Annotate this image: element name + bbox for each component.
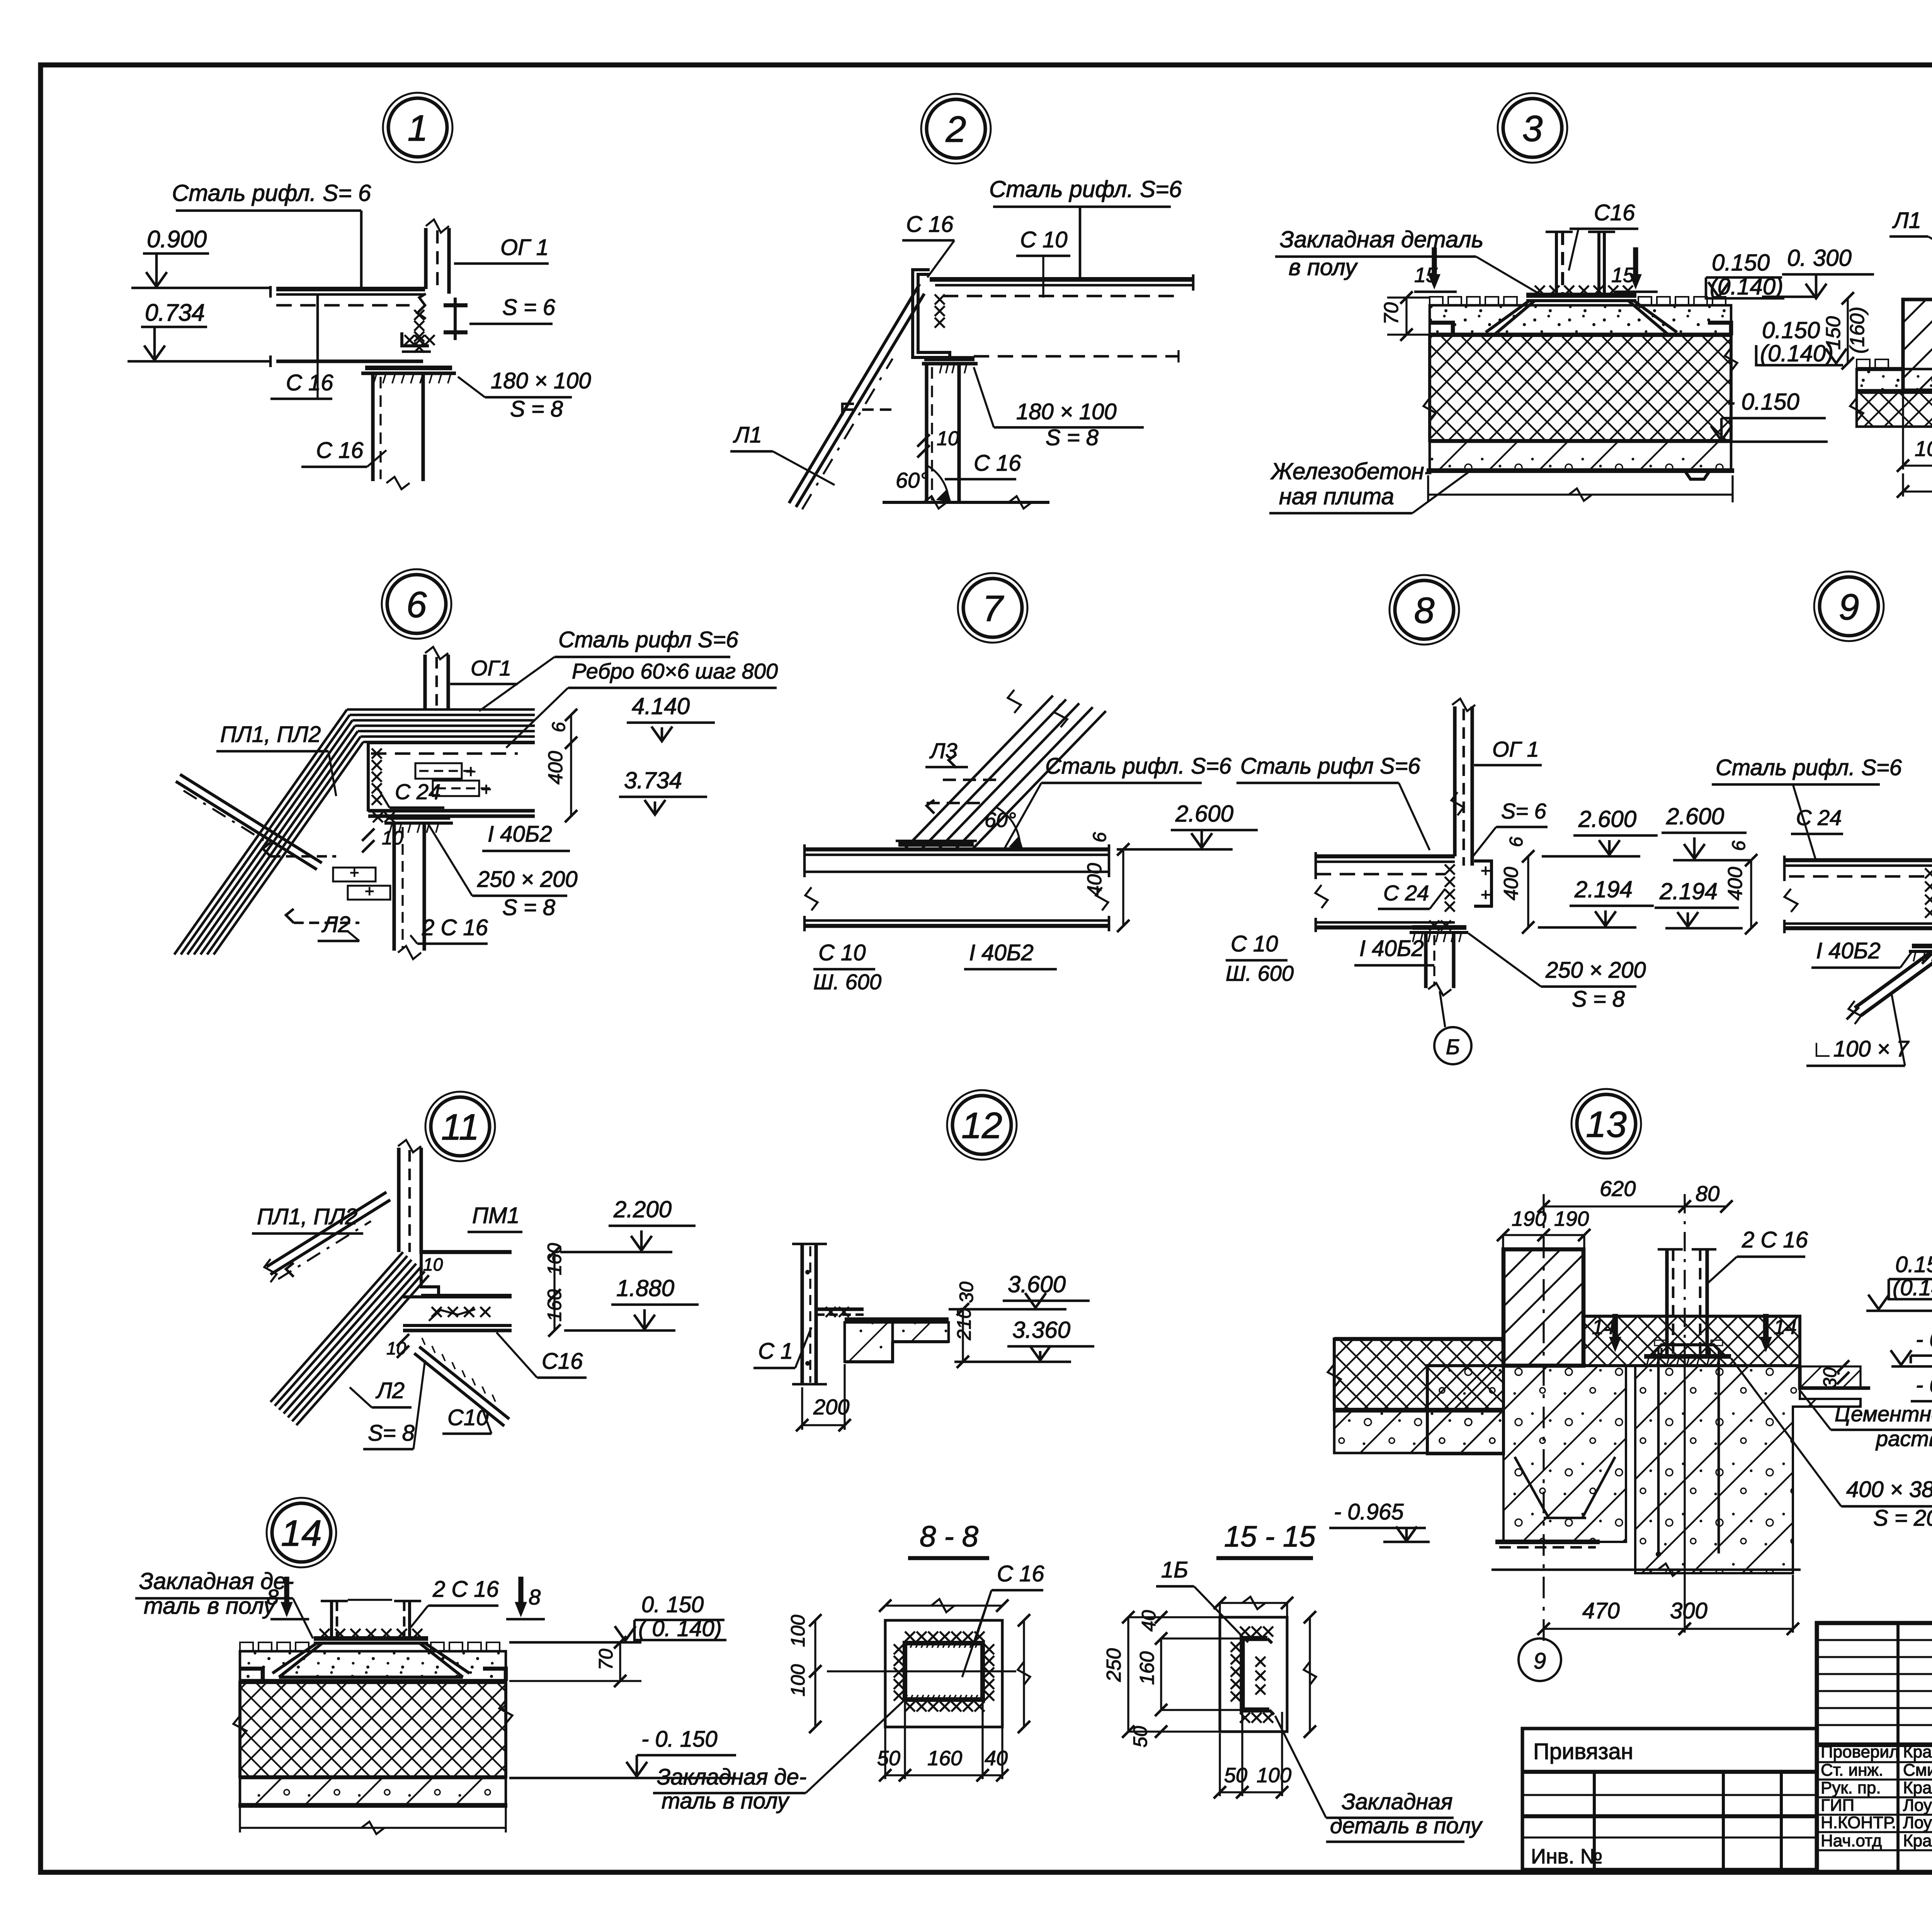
svg-text:11: 11 bbox=[441, 1107, 480, 1148]
svg-text:Краснова: Краснова bbox=[1903, 1742, 1932, 1761]
detail 4 concrete pier bbox=[1903, 299, 1932, 391]
detail 3 weld crosses on plate bbox=[1535, 286, 1545, 296]
svg-text:Ш. 600: Ш. 600 bbox=[813, 970, 881, 994]
svg-text:ОГ 1: ОГ 1 bbox=[500, 235, 549, 260]
svg-text:6: 6 bbox=[406, 584, 427, 625]
section 15-15 weld crosses bbox=[1240, 1627, 1250, 1637]
svg-text:С 16: С 16 bbox=[906, 212, 954, 237]
title block left row lines lower bbox=[1817, 1761, 1932, 1763]
svg-text:Сталь рифл. S=6: Сталь рифл. S=6 bbox=[1716, 755, 1902, 780]
svg-text:Закладная деталь: Закладная деталь bbox=[1280, 226, 1483, 252]
svg-text:400 × 380: 400 × 380 bbox=[1846, 1477, 1932, 1502]
svg-text:С16: С16 bbox=[542, 1349, 583, 1374]
detail 7 stringer Л3 bbox=[904, 696, 1053, 849]
detail 3 sand notch left bbox=[1430, 323, 1453, 335]
svg-text:250: 250 bbox=[1103, 1648, 1125, 1682]
svg-text:Л1: Л1 bbox=[733, 422, 762, 447]
svg-text:0.900: 0.900 bbox=[147, 226, 207, 253]
section 8-8 hole hatch bbox=[905, 1643, 907, 1648]
svg-text:S = 8: S = 8 bbox=[510, 396, 563, 422]
svg-text:100: 100 bbox=[787, 1664, 809, 1696]
svg-text:С10: С10 bbox=[447, 1405, 488, 1430]
svg-text:S = 6: S = 6 bbox=[502, 295, 556, 320]
detail 14 concrete layer bbox=[240, 1778, 506, 1804]
detail 13 floor left of column bbox=[1334, 1339, 1503, 1409]
svg-text:8: 8 bbox=[529, 1585, 541, 1609]
svg-text:Ребро 60×6 шаг 800: Ребро 60×6 шаг 800 bbox=[572, 659, 778, 683]
svg-text:400: 400 bbox=[1500, 867, 1522, 900]
svg-text:ГИП: ГИП bbox=[1821, 1796, 1854, 1815]
detail 2 baseline bbox=[883, 501, 1049, 504]
detail 3 concrete layer bbox=[1430, 442, 1731, 470]
title block left column lines bbox=[1896, 1623, 1900, 1872]
svg-text:2: 2 bbox=[946, 109, 966, 150]
svg-text:13: 13 bbox=[1586, 1104, 1627, 1145]
detail 1 channel C16 web bbox=[316, 294, 319, 361]
detail 13 weld ticks under plate bbox=[1647, 1356, 1649, 1365]
detail 13 concrete layer left bbox=[1334, 1411, 1503, 1453]
svg-text:Проверил: Проверил bbox=[1821, 1742, 1899, 1761]
detail 8 column below bbox=[1424, 932, 1427, 988]
detail 14 pavers bbox=[240, 1642, 253, 1651]
detail 9 beam bbox=[1784, 858, 1932, 863]
detail 14 anchor legs bbox=[272, 1643, 317, 1673]
svg-text:300: 300 bbox=[1670, 1598, 1708, 1623]
svg-text:8: 8 bbox=[1414, 590, 1435, 631]
detail 13 foundation left block bbox=[1427, 1366, 1503, 1454]
svg-text:ПЛ1, ПЛ2: ПЛ1, ПЛ2 bbox=[220, 722, 321, 747]
section 15-15 top dim line bbox=[1220, 1602, 1287, 1604]
svg-text:Сталь рифл. S=6: Сталь рифл. S=6 bbox=[1045, 754, 1232, 779]
svg-text:8: 8 bbox=[267, 1585, 279, 1609]
svg-text:С 16: С 16 bbox=[316, 438, 364, 463]
detail 14 embed plate bbox=[314, 1636, 428, 1641]
detail 13 plate bolts bbox=[1657, 1348, 1659, 1356]
detail 13 anchor bolts into foundation bbox=[1657, 1356, 1660, 1553]
svg-text:Сталь рифл S=6: Сталь рифл S=6 bbox=[558, 627, 739, 652]
svg-text:Л3: Л3 bbox=[929, 738, 957, 763]
svg-text:9: 9 bbox=[1839, 587, 1859, 628]
svg-text:С 16: С 16 bbox=[286, 370, 333, 395]
detail 4 pavers bbox=[1857, 359, 1870, 368]
svg-text:- 0. 150: - 0. 150 bbox=[641, 1727, 718, 1752]
svg-text:2.194: 2.194 bbox=[1574, 876, 1633, 902]
svg-text:190: 190 bbox=[1512, 1207, 1546, 1230]
svg-text:1: 1 bbox=[408, 108, 428, 149]
section 8-8 top dim line bbox=[885, 1604, 1002, 1606]
svg-text:∟100 × 7: ∟100 × 7 bbox=[1811, 1036, 1910, 1062]
detail 7 marker bbox=[958, 573, 1027, 643]
detail 13 step mortar joint bbox=[1800, 1366, 1870, 1388]
detail 6 weld crosses left bbox=[372, 749, 382, 759]
svg-text:9: 9 bbox=[1534, 1649, 1546, 1674]
svg-text:1Б: 1Б bbox=[1161, 1557, 1188, 1582]
svg-text:70: 70 bbox=[1380, 302, 1403, 325]
svg-text:I 40Б2: I 40Б2 bbox=[969, 940, 1034, 965]
svg-text:100: 100 bbox=[787, 1615, 809, 1647]
svg-text:2 С 16: 2 С 16 bbox=[422, 915, 488, 940]
detail 2 support plate 180x100 bbox=[924, 356, 975, 361]
detail 12 slab bbox=[845, 1317, 949, 1322]
detail 12 bracket arm bbox=[816, 1307, 864, 1311]
detail 11 band top corner bbox=[403, 1252, 403, 1252]
section 8-8 weld crosses around bbox=[905, 1632, 915, 1642]
svg-text:3.360: 3.360 bbox=[1012, 1317, 1070, 1343]
detail 11 diagonal brace C10 bbox=[419, 1347, 509, 1419]
svg-text:2.194: 2.194 bbox=[1659, 878, 1718, 904]
svg-text:С 16: С 16 bbox=[974, 451, 1021, 476]
svg-text:190: 190 bbox=[1554, 1207, 1589, 1230]
svg-text:ПЛ1, ПЛ2: ПЛ1, ПЛ2 bbox=[257, 1204, 357, 1229]
svg-text:180 × 100: 180 × 100 bbox=[491, 368, 591, 393]
svg-text:I 40Б2: I 40Б2 bbox=[1816, 938, 1881, 963]
section 8-8 plate bbox=[885, 1620, 1002, 1727]
detail 13 floor slab right of column bbox=[1583, 1316, 1800, 1366]
detail 8 column plate bbox=[1412, 925, 1466, 930]
svg-text:Сталь рифл. S= 6: Сталь рифл. S= 6 bbox=[172, 180, 371, 206]
svg-text:- 0.965: - 0.965 bbox=[1334, 1499, 1404, 1524]
svg-text:4.140: 4.140 bbox=[632, 693, 690, 719]
svg-text:S = 8: S = 8 bbox=[1572, 987, 1625, 1012]
svg-text:2.600: 2.600 bbox=[1175, 801, 1233, 827]
svg-text:50: 50 bbox=[1224, 1764, 1247, 1787]
svg-text:10: 10 bbox=[937, 427, 959, 450]
svg-text:0.150: 0.150 bbox=[1712, 250, 1770, 276]
svg-text:Рук. пр.: Рук. пр. bbox=[1821, 1778, 1881, 1797]
svg-text:+: + bbox=[1481, 885, 1491, 904]
svg-text:0.150: 0.150 bbox=[1762, 317, 1820, 343]
detail 13 foundation right deep bbox=[1635, 1366, 1861, 1573]
registration box grid bbox=[1522, 1814, 1817, 1819]
svg-text:2.600: 2.600 bbox=[1666, 803, 1724, 829]
svg-text:70: 70 bbox=[595, 1649, 617, 1670]
svg-text:50: 50 bbox=[877, 1747, 900, 1770]
svg-text:Нач.отд: Нач.отд bbox=[1821, 1831, 1882, 1850]
detail 13 posts 2C16 bbox=[1665, 1249, 1668, 1356]
svg-text:6: 6 bbox=[1506, 837, 1527, 847]
detail 2 beam end ticks bbox=[1192, 274, 1195, 291]
detail 1 angle seat bbox=[402, 332, 429, 346]
svg-text:3.600: 3.600 bbox=[1008, 1271, 1066, 1297]
svg-text:3: 3 bbox=[1522, 108, 1543, 149]
detail 13 column hatched bbox=[1503, 1249, 1583, 1366]
detail 4 pier bottom line bbox=[1901, 388, 1932, 393]
svg-text:+: + bbox=[481, 779, 492, 799]
detail 11 post bbox=[397, 1148, 400, 1252]
detail 3 embed plate bbox=[1526, 293, 1636, 298]
detail 1 railing post ОГ1 bbox=[424, 228, 427, 289]
svg-text:0.734: 0.734 bbox=[145, 299, 205, 326]
svg-text:- 0.150: - 0.150 bbox=[1916, 1327, 1932, 1352]
svg-text:Инв. №: Инв. № bbox=[1531, 1845, 1602, 1868]
detail 6 post ОГ1 bbox=[423, 655, 427, 709]
detail 14 bottom dim line bbox=[240, 1827, 506, 1829]
svg-text:2.200: 2.200 bbox=[613, 1196, 672, 1222]
detail 1 post gusset bbox=[417, 294, 426, 319]
svg-text:620: 620 bbox=[1600, 1176, 1636, 1201]
detail 14 marker bbox=[267, 1498, 336, 1567]
svg-text:60°: 60° bbox=[896, 468, 929, 492]
detail 6 column plate bbox=[386, 816, 450, 820]
svg-text:Лоуцкер: Лоуцкер bbox=[1903, 1813, 1932, 1832]
svg-text:Краснова: Краснова bbox=[1903, 1778, 1932, 1797]
detail 2 edge channel bbox=[913, 270, 950, 357]
detail 9 weld crosses bbox=[1925, 868, 1932, 878]
detail 3 pavers right bbox=[1638, 297, 1651, 305]
svg-text:в полу: в полу bbox=[1289, 254, 1358, 280]
svg-text:15 - 15: 15 - 15 bbox=[1224, 1520, 1316, 1553]
detail 9 diagonal brace bbox=[1855, 951, 1932, 1008]
detail 4 crosshatch band bbox=[1857, 393, 1932, 427]
detail 13 sub-circle 9 bbox=[1519, 1638, 1561, 1681]
section 15-15 channel C bbox=[1242, 1638, 1269, 1710]
svg-text:14: 14 bbox=[1592, 1315, 1615, 1339]
detail 8 sub-circle Б bbox=[1434, 1027, 1471, 1064]
svg-text:2 С 16: 2 С 16 bbox=[432, 1577, 499, 1602]
detail 14 posts bbox=[330, 1601, 333, 1641]
detail 9 column plate bbox=[1912, 944, 1932, 948]
svg-text:8 - 8: 8 - 8 bbox=[920, 1520, 978, 1553]
svg-text:(160): (160) bbox=[1846, 307, 1869, 354]
detail 3 breakline marks bbox=[1423, 398, 1436, 421]
svg-text:400: 400 bbox=[1724, 867, 1747, 900]
detail 8 weld crosses bbox=[1445, 864, 1455, 875]
detail 13 column centerline bbox=[1543, 1194, 1544, 1646]
title block horizontal line under top row bbox=[1817, 1742, 1932, 1747]
detail 2 beam top flange bbox=[930, 277, 1193, 282]
svg-text:+: + bbox=[466, 761, 476, 781]
svg-text:S= 8: S= 8 bbox=[368, 1421, 415, 1446]
detail 7 base plate bbox=[898, 842, 974, 847]
svg-text:+: + bbox=[365, 882, 374, 900]
svg-text:I 40Б2: I 40Б2 bbox=[488, 822, 552, 847]
detail 3 sand layer bbox=[1430, 305, 1731, 335]
detail 1 weld crosses bbox=[414, 310, 424, 320]
svg-text:ОГ1: ОГ1 bbox=[471, 656, 511, 680]
detail 8 marker bbox=[1389, 575, 1459, 645]
detail 9 leader bbox=[1793, 784, 1816, 861]
detail 1 support plate 180x100 bbox=[365, 366, 452, 370]
svg-text:150: 150 bbox=[1822, 316, 1845, 350]
svg-text:470: 470 bbox=[1582, 1598, 1620, 1623]
svg-text:10: 10 bbox=[423, 1254, 443, 1274]
detail 13 anchor plate bbox=[1650, 1345, 1725, 1356]
svg-text:7: 7 bbox=[983, 588, 1004, 629]
svg-text:таль в полу: таль в полу bbox=[144, 1593, 277, 1619]
registration box Привязан bbox=[1522, 1729, 1817, 1870]
detail 12 channel C1 bbox=[800, 1244, 804, 1384]
svg-text:6: 6 bbox=[1090, 832, 1110, 842]
detail 2 column bbox=[925, 364, 928, 502]
svg-text:40: 40 bbox=[985, 1747, 1008, 1770]
detail 11 landing beam ПМ1 bbox=[421, 1250, 512, 1254]
detail 7 beam bbox=[804, 847, 1109, 852]
detail 1 marker bbox=[383, 93, 452, 162]
detail 13 bottom edge bbox=[1427, 1573, 1793, 1574]
svg-text:+: + bbox=[1481, 861, 1491, 880]
svg-text:Ш. 600: Ш. 600 bbox=[1226, 961, 1294, 985]
svg-text:3.734: 3.734 bbox=[624, 767, 682, 793]
detail 14 crosshatch block bbox=[240, 1683, 506, 1777]
svg-text:210: 210 bbox=[953, 1308, 975, 1341]
svg-text:С 10: С 10 bbox=[1231, 931, 1278, 956]
svg-text:С 10: С 10 bbox=[818, 940, 866, 965]
detail 3 bottom plate bbox=[1427, 468, 1734, 473]
svg-text:400: 400 bbox=[1083, 863, 1106, 897]
detail 13 base plate bottom bbox=[1495, 1540, 1600, 1544]
svg-text:Сталь рифл S=6: Сталь рифл S=6 bbox=[1240, 754, 1421, 779]
detail 8 post ОГ1 bbox=[1453, 706, 1456, 856]
svg-text:6: 6 bbox=[1729, 840, 1749, 851]
svg-text:- 0.150: - 0.150 bbox=[1727, 389, 1799, 415]
detail 1 beam bottom flange bbox=[276, 359, 423, 363]
svg-text:Привязан: Привязан bbox=[1533, 1739, 1633, 1764]
svg-text:Ст. инж.: Ст. инж. bbox=[1821, 1761, 1883, 1780]
svg-text:ная плита: ная плита bbox=[1279, 483, 1394, 509]
section 8-8 inner hole bbox=[905, 1643, 983, 1700]
svg-text:КрасавиН: КрасавиН bbox=[1903, 1831, 1932, 1850]
svg-text:S = 8: S = 8 bbox=[1046, 425, 1099, 450]
svg-text:100: 100 bbox=[1915, 436, 1932, 461]
svg-text:14: 14 bbox=[281, 1513, 322, 1554]
detail 3 crosshatch block bbox=[1430, 335, 1731, 441]
detail 13 cut flags 14 bbox=[1612, 1314, 1618, 1345]
svg-text:0. 150: 0. 150 bbox=[641, 1592, 704, 1617]
svg-text:С 10: С 10 bbox=[1020, 227, 1068, 252]
svg-text:ОГ 1: ОГ 1 bbox=[1492, 737, 1539, 761]
svg-text:S = 20: S = 20 bbox=[1873, 1506, 1932, 1531]
svg-text:Закладная: Закладная bbox=[1342, 1789, 1452, 1814]
svg-text:1.880: 1.880 bbox=[616, 1275, 674, 1301]
svg-text:Л1: Л1 bbox=[1892, 208, 1921, 233]
svg-text:6: 6 bbox=[549, 722, 569, 732]
detail 8 beam bbox=[1316, 854, 1455, 859]
detail 6 stringer plates bbox=[333, 868, 376, 881]
svg-text:+: + bbox=[350, 863, 359, 881]
detail 2 stringer step hook bbox=[842, 404, 854, 415]
detail 3 pavers left bbox=[1430, 297, 1443, 305]
detail 8 angle bracket on post bbox=[1474, 861, 1492, 906]
detail 9 I-column head bbox=[1917, 927, 1932, 930]
detail 6 marker bbox=[382, 569, 451, 639]
svg-text:С 24: С 24 bbox=[1796, 805, 1842, 830]
svg-text:С16: С16 bbox=[1594, 200, 1635, 225]
detail 3 posts bbox=[1555, 232, 1558, 296]
svg-text:Л2: Л2 bbox=[321, 912, 350, 937]
detail 1 column below bbox=[371, 373, 374, 481]
svg-text:100: 100 bbox=[1257, 1764, 1291, 1787]
section 15-15 plate bbox=[1220, 1617, 1287, 1732]
detail 6 platform band bbox=[347, 708, 535, 711]
detail 2 weld crosses bbox=[935, 294, 945, 305]
title block outer bbox=[1817, 1623, 1932, 1872]
detail 11 stair flight band bbox=[270, 1252, 403, 1402]
svg-text:2.600: 2.600 bbox=[1578, 806, 1636, 832]
svg-text:Сталь рифл. S=6: Сталь рифл. S=6 bbox=[989, 176, 1182, 202]
svg-text:160: 160 bbox=[1136, 1651, 1158, 1685]
svg-text:S = 8: S = 8 bbox=[502, 895, 555, 920]
svg-text:80: 80 bbox=[1696, 1181, 1719, 1206]
svg-text:400: 400 bbox=[544, 751, 567, 784]
detail 6 column bbox=[392, 823, 396, 951]
detail 13 foundation funnel bbox=[1515, 1457, 1549, 1518]
svg-text:С 24: С 24 bbox=[395, 779, 440, 804]
detail 11 upper-left stringer bbox=[267, 1192, 386, 1267]
svg-text:0. 300: 0. 300 bbox=[1787, 245, 1852, 271]
detail 14 sand layer bbox=[240, 1651, 506, 1681]
svg-text:30: 30 bbox=[956, 1281, 977, 1303]
detail 3 elevation 0.300 bbox=[1762, 296, 1816, 298]
detail 3 marker bbox=[1498, 93, 1567, 163]
detail 13 foundation main bbox=[1503, 1366, 1626, 1542]
detail 11 marker bbox=[425, 1092, 495, 1161]
svg-text:250 × 200: 250 × 200 bbox=[477, 867, 578, 892]
detail 6 lower stringer Л2 bbox=[180, 774, 322, 863]
detail 2 stringer Л1 bbox=[789, 284, 920, 503]
detail 2 beam bottom dashed bbox=[974, 355, 1179, 358]
svg-text:Н.КОНТР.: Н.КОНТР. bbox=[1821, 1813, 1896, 1832]
svg-text:Железобетон-: Железобетон- bbox=[1270, 458, 1432, 484]
detail 1 beam flange bbox=[276, 287, 425, 291]
detail 3 sand notch right bbox=[1708, 323, 1731, 335]
svg-text:50: 50 bbox=[1129, 1726, 1151, 1747]
detail 2 marker bbox=[921, 94, 991, 163]
svg-text:С 24: С 24 bbox=[1383, 881, 1429, 905]
section 8-8 centerline bbox=[827, 1670, 1016, 1672]
svg-text:2 С 16: 2 С 16 bbox=[1742, 1227, 1808, 1252]
detail 9 marker bbox=[1814, 572, 1884, 641]
title block left thin rows bbox=[1817, 1639, 1932, 1641]
detail 6 connection plates bbox=[415, 763, 462, 779]
svg-text:Смирнова: Смирнова bbox=[1903, 1761, 1932, 1780]
svg-text:250 × 200: 250 × 200 bbox=[1545, 958, 1646, 983]
svg-text:14: 14 bbox=[1774, 1315, 1797, 1339]
svg-text:- 0.180: - 0.180 bbox=[1916, 1373, 1932, 1398]
detail 3 anchor legs bbox=[1486, 301, 1529, 332]
svg-text:160: 160 bbox=[927, 1747, 962, 1770]
svg-text:Л2: Л2 bbox=[375, 1378, 405, 1403]
svg-text:0.150: 0.150 bbox=[1895, 1252, 1932, 1277]
detail 11 lower beam bbox=[403, 1295, 512, 1298]
svg-text:I 40Б2: I 40Б2 bbox=[1359, 936, 1424, 961]
svg-text:Б: Б bbox=[1446, 1034, 1460, 1059]
svg-text:S= 6: S= 6 bbox=[1501, 799, 1547, 823]
detail 13 marker bbox=[1571, 1089, 1641, 1159]
svg-text:С 1: С 1 bbox=[758, 1339, 793, 1364]
detail 11 weld crosses lower beam bbox=[432, 1307, 442, 1317]
section 8-8 right dim line bbox=[1023, 1620, 1025, 1727]
section 15-15 right dim line bbox=[1309, 1617, 1311, 1732]
svg-text:Лоуцкер: Лоуцкер bbox=[1903, 1796, 1932, 1815]
detail 7 stringer arrows bbox=[949, 754, 956, 768]
svg-text:Закладная де-: Закладная де- bbox=[657, 1764, 806, 1790]
detail 6 beam box bbox=[368, 741, 535, 744]
svg-text:С 16: С 16 bbox=[997, 1561, 1044, 1586]
detail 3 bottom dim line bbox=[1428, 493, 1733, 495]
detail 4 sand layer bbox=[1857, 369, 1932, 390]
svg-text:ПМ1: ПМ1 bbox=[472, 1203, 520, 1228]
svg-text:180 × 100: 180 × 100 bbox=[1016, 399, 1117, 424]
svg-text:12: 12 bbox=[961, 1105, 1002, 1146]
detail 12 marker bbox=[947, 1090, 1017, 1160]
